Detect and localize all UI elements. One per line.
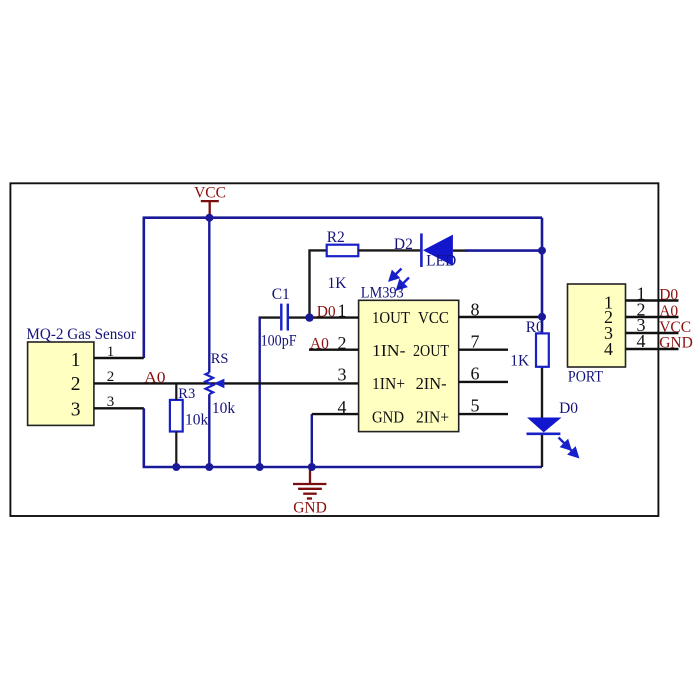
resistor R2: [327, 245, 359, 257]
potentiometer RS zigzag: [206, 373, 214, 395]
wire: LED D0 to ground rail: [541, 435, 543, 467]
ground symbol GND: [293, 468, 326, 499]
junction dot pin8 node: [538, 313, 546, 321]
MQ-2 pin 2 / A0 net line to LM393 pin 3: [94, 382, 359, 384]
svg-text:2: 2: [71, 374, 81, 395]
LED D2 triangle: [423, 235, 453, 266]
LED D2 emission arrows: [390, 269, 409, 290]
wire: C1 down wire to ground rail: [259, 318, 261, 467]
svg-text:4: 4: [604, 339, 613, 359]
capacitor C1 plates: [280, 304, 282, 331]
junction dot D0 node: [305, 313, 313, 321]
junction dot LED D2 node: [538, 247, 546, 255]
junction dot pin4 ground: [308, 463, 316, 471]
LED D0 triangle: [527, 418, 562, 433]
svg-text:1: 1: [338, 301, 347, 321]
svg-text:RS: RS: [211, 351, 229, 367]
PORT pin 2 line: [626, 316, 679, 318]
svg-text:3: 3: [71, 399, 81, 420]
LED D0 emission arrows: [559, 438, 578, 457]
svg-text:1: 1: [71, 350, 81, 371]
svg-text:1IN-: 1IN-: [372, 341, 406, 360]
wire: R2 left lead vertical to D0 node: [310, 250, 327, 317]
svg-text:PORT: PORT: [568, 369, 603, 386]
R3 bottom lead: [175, 432, 177, 468]
svg-text:2: 2: [107, 369, 115, 385]
PORT pin 1 line: [626, 299, 679, 301]
svg-text:2IN-: 2IN-: [416, 374, 447, 393]
border frame: [10, 183, 658, 516]
svg-text:3: 3: [107, 394, 115, 410]
junction dot R3 ground: [172, 463, 180, 471]
wire: top VCC rail: [143, 216, 542, 219]
wire: R0 bottom to LED D0: [541, 367, 543, 418]
svg-text:VCC: VCC: [194, 185, 226, 202]
svg-text:4: 4: [338, 397, 347, 417]
PORT pin 4 line: [626, 348, 679, 350]
svg-text:GND: GND: [293, 500, 327, 517]
svg-text:A0: A0: [310, 336, 329, 353]
LM393 pin 6 line: [459, 381, 508, 383]
svg-text:1K: 1K: [510, 353, 530, 370]
svg-text:R3: R3: [178, 386, 195, 402]
MQ-2 pin 3 line: [94, 407, 144, 409]
svg-text:1K: 1K: [328, 275, 348, 292]
svg-text:2OUT: 2OUT: [413, 341, 449, 360]
svg-text:2IN+: 2IN+: [416, 407, 449, 426]
svg-text:3: 3: [338, 365, 347, 385]
svg-text:LM393: LM393: [361, 285, 404, 302]
svg-text:10k: 10k: [212, 400, 236, 417]
LM393 pin 7 line: [459, 349, 508, 351]
wire: right vertical rail to R0: [541, 218, 544, 334]
svg-text:VCC: VCC: [659, 319, 691, 336]
svg-text:D0: D0: [317, 304, 336, 321]
junction dot RS ground: [205, 463, 213, 471]
svg-text:1: 1: [107, 344, 115, 360]
R2 right lead: [358, 249, 420, 251]
svg-text:D0: D0: [659, 287, 678, 304]
svg-text:A0: A0: [144, 370, 166, 387]
wire: C1 left plate lead: [259, 316, 281, 318]
MQ-2 pin 1 line: [94, 357, 144, 359]
LM393 pin 8 line: [459, 316, 542, 318]
svg-text:VCC: VCC: [418, 308, 449, 327]
svg-text:D2: D2: [394, 236, 413, 253]
svg-text:D0: D0: [559, 400, 578, 417]
wire: ground rail: [143, 466, 542, 469]
LM393 pin 2 line: [309, 349, 359, 351]
svg-text:2: 2: [338, 333, 347, 353]
LED D2 cathode bar: [420, 233, 423, 267]
svg-text:10k: 10k: [185, 412, 209, 429]
LM393 pin 5 line: [459, 413, 508, 415]
svg-text:C1: C1: [272, 286, 290, 303]
svg-text:R0: R0: [526, 319, 544, 336]
junction dot VCC node: [205, 214, 213, 222]
svg-text:6: 6: [471, 364, 480, 384]
RS wiper arrow: [214, 379, 225, 389]
wire: C1 right plate to D0 node: [289, 316, 310, 318]
wire: left vertical from rail to MQ-2 pin 1: [143, 218, 146, 358]
svg-text:100pF: 100pF: [261, 333, 297, 350]
connector J1 MQ-2 Gas Sensor: [28, 342, 94, 425]
R3 top lead: [175, 383, 177, 400]
wire: MQ-2 pin 3 down to ground rail: [143, 408, 146, 467]
LM393 pin 1 line: [310, 316, 359, 318]
power symbol VCC: [201, 201, 219, 216]
svg-text:MQ-2 Gas Sensor: MQ-2 Gas Sensor: [26, 326, 136, 343]
junction dot C1 ground: [256, 463, 264, 471]
svg-text:A0: A0: [659, 303, 678, 320]
svg-text:LED: LED: [426, 253, 456, 270]
resistor R3: [170, 400, 183, 432]
wire: LM393 pin 4 to ground rail: [311, 414, 313, 467]
resistor R0: [536, 333, 549, 366]
IC U1 LM393 body: [359, 300, 459, 431]
svg-text:1IN+: 1IN+: [372, 374, 405, 393]
svg-text:7: 7: [471, 332, 480, 352]
svg-text:4: 4: [637, 331, 646, 351]
LED D0 cathode bar: [527, 432, 561, 435]
wire: RS vertical lower: [208, 394, 210, 467]
wire: RS vertical upper: [208, 218, 210, 373]
connector PORT: [568, 284, 626, 367]
svg-text:5: 5: [471, 396, 480, 416]
svg-text:GND: GND: [659, 335, 693, 352]
PORT pin 3 line: [626, 332, 679, 334]
svg-text:8: 8: [471, 300, 480, 320]
LM393 pin 4 line: [312, 413, 359, 415]
wire: LED D2 anode to right vertical: [453, 249, 467, 251]
svg-text:GND: GND: [372, 407, 404, 426]
svg-text:R2: R2: [327, 229, 345, 246]
svg-text:1OUT: 1OUT: [372, 308, 410, 327]
